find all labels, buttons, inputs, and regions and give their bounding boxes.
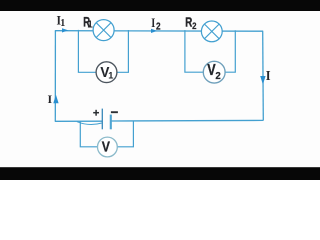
wire: V2 left branch: [185, 30, 204, 72]
label R2: [185, 16, 196, 32]
label I2: [151, 16, 161, 32]
wire: right vertical: [262, 31, 265, 120]
svg-text:2: 2: [156, 21, 161, 32]
lamp R2: [201, 21, 222, 42]
lamp R1: [93, 20, 114, 41]
wire: V1 left branch: [78, 30, 96, 72]
svg-text:2: 2: [192, 21, 196, 32]
svg-text:I: I: [48, 94, 53, 106]
svg-text:V: V: [102, 138, 111, 155]
wire: V loop left branch: [80, 121, 98, 147]
label + (battery positive): [93, 110, 99, 116]
top letterbox bar: [0, 0, 320, 11]
current arrow I (right wire, pointing down): [260, 76, 265, 85]
current arrow I2 (top wire, pointing right): [151, 29, 157, 33]
current arrow I1 (top wire, pointing right): [62, 28, 68, 32]
svg-text:I: I: [266, 69, 271, 84]
label I1: [57, 14, 66, 29]
wire: bottom right segment (right corner to battery negative): [111, 119, 263, 122]
voltmeter V (across battery): [98, 137, 118, 157]
wire: top horizontal: [55, 30, 263, 33]
wire: battery sag curve: [77, 122, 102, 125]
battery cell: negative short plate: [110, 115, 112, 130]
svg-text:1: 1: [87, 19, 93, 30]
wire: V loop right branch: [117, 121, 133, 147]
background paper: [0, 0, 320, 180]
current arrow I (left wire, pointing up): [53, 95, 58, 104]
voltmeter V1: [96, 62, 117, 83]
wire: V1 right branch: [117, 30, 129, 72]
battery cell: positive long plate: [101, 109, 103, 130]
label - (battery negative): [111, 111, 118, 113]
wire: left vertical: [54, 31, 56, 121]
svg-text:I: I: [151, 16, 155, 30]
svg-text:2: 2: [215, 70, 221, 82]
wire: bottom left segment (battery positive to left corner): [55, 120, 102, 122]
svg-text:1: 1: [108, 70, 113, 80]
voltmeter V2: [203, 61, 225, 83]
bottom letterbox bar: [0, 167, 320, 180]
svg-text:1: 1: [60, 18, 65, 29]
wire: V2 right branch: [225, 30, 235, 72]
label R1: [83, 15, 93, 31]
